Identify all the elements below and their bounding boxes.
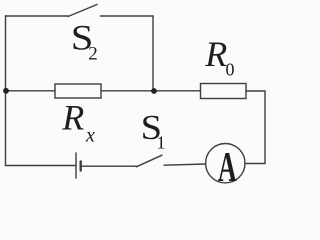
svg-text:x: x [85, 125, 95, 147]
svg-text:R: R [61, 98, 84, 138]
svg-text:R: R [204, 34, 227, 74]
ammeter A circle [206, 144, 245, 183]
svg-text:1: 1 [157, 133, 166, 153]
node junction dot left [3, 88, 9, 94]
switch S1 blade [136, 155, 162, 167]
battery short plate [79, 162, 81, 171]
svg-text:A: A [218, 144, 237, 191]
wire bottom between battery and S1 [81, 165, 136, 167]
wire right-top vertical [152, 16, 154, 91]
wire middle left segment [6, 90, 56, 92]
wire top-right horizontal [101, 15, 154, 17]
battery long plate [75, 153, 77, 178]
wire ammeter to S1 [164, 164, 206, 165]
switch S2 blade [68, 5, 97, 17]
svg-text:2: 2 [88, 44, 98, 65]
resistor Rx box [55, 84, 101, 98]
wire middle-right to corner [246, 90, 265, 92]
wire bottom-left [6, 165, 77, 167]
wire middle between Rx and R0 [101, 90, 200, 92]
resistor R0 box [201, 84, 247, 99]
svg-text:0: 0 [226, 60, 235, 80]
wire into ammeter right side [245, 163, 265, 165]
wire top-left horizontal [6, 15, 69, 17]
node junction dot middle [151, 88, 157, 94]
wire left vertical [5, 16, 7, 166]
wire right vertical [264, 91, 266, 164]
